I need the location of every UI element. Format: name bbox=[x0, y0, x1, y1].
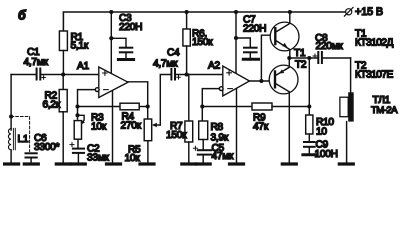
svg-text:150к: 150к bbox=[192, 37, 213, 48]
svg-text:220Н: 220Н bbox=[119, 22, 142, 33]
svg-text:C4: C4 bbox=[167, 48, 180, 59]
node A1 supply on rail bbox=[109, 10, 113, 14]
svg-text:4,7мк: 4,7мк bbox=[24, 57, 49, 68]
wire A2 feedback bbox=[202, 89, 219, 121]
svg-text:A2: A2 bbox=[208, 61, 220, 72]
inductor L1 (microphone) bbox=[8, 75, 15, 163]
capacitor C9 bbox=[304, 142, 315, 153]
node A2 inverting input circle bbox=[219, 87, 223, 91]
node L1 tap (dashed branch) bbox=[9, 114, 13, 118]
ground (C6) bbox=[24, 162, 38, 165]
node C3 tap bbox=[109, 36, 113, 40]
node R9/R10 bbox=[307, 104, 311, 108]
wire mic input bbox=[11, 74, 36, 76]
ground (C7) bbox=[243, 58, 258, 61]
transistor T1 bbox=[270, 12, 299, 58]
node R10 tap bbox=[307, 56, 311, 60]
wire A1 supply from rail bbox=[110, 12, 112, 76]
node base drive bbox=[259, 79, 263, 83]
speaker TL1 (telephone capsule) bbox=[340, 92, 354, 162]
ground (C2) bbox=[71, 162, 85, 165]
ground (C9) bbox=[303, 153, 316, 156]
resistor R2 bbox=[59, 75, 67, 163]
node feedback/R4 bbox=[75, 104, 79, 108]
capacitor C1 bbox=[37, 69, 99, 80]
capacitor C4 bbox=[171, 69, 222, 80]
wire top +15V rail bbox=[63, 12, 345, 31]
node feedback/wiper bbox=[75, 113, 79, 117]
ground (T2 collector) bbox=[282, 162, 296, 165]
svg-text:б: б bbox=[18, 9, 27, 23]
svg-text:5,1к: 5,1к bbox=[71, 41, 89, 52]
node T1 collector on rail bbox=[288, 10, 292, 14]
ground (R5) bbox=[140, 162, 154, 165]
ground (R2) bbox=[56, 162, 70, 165]
capacitor C2 bbox=[70, 143, 84, 163]
wire output to C8 bbox=[289, 57, 317, 59]
wire A2 ground stub bbox=[236, 86, 238, 163]
ground (R7) bbox=[182, 162, 196, 165]
ground (L1) bbox=[5, 162, 19, 165]
svg-text:A1: A1 bbox=[77, 61, 89, 72]
wire A1 output bbox=[128, 82, 148, 119]
svg-text:3,9к: 3,9к bbox=[211, 132, 229, 143]
ground (C3) bbox=[118, 58, 133, 61]
svg-text:10к: 10к bbox=[91, 122, 107, 133]
capacitor C8 bbox=[313, 52, 351, 63]
ground (C5) bbox=[196, 162, 210, 165]
resistor R6 bbox=[183, 12, 190, 75]
svg-text:47к: 47к bbox=[253, 122, 269, 133]
resistor R1 bbox=[59, 31, 67, 75]
resistor R9 bbox=[202, 103, 309, 110]
svg-text:100Н: 100Н bbox=[315, 149, 338, 160]
svg-text:3300*: 3300* bbox=[34, 142, 59, 153]
resistor R3 (trimmer) bbox=[74, 115, 85, 148]
wire A2 output to bases bbox=[250, 80, 275, 82]
terminal +15V bbox=[344, 8, 353, 17]
node R4/output bbox=[146, 104, 150, 108]
svg-text:150к: 150к bbox=[166, 130, 187, 141]
resistor R7 bbox=[185, 75, 193, 163]
resistor R4 bbox=[78, 103, 148, 110]
capacitor C6 bbox=[26, 153, 37, 162]
resistor R10 bbox=[306, 58, 313, 141]
wire R5 wiper to C4 bbox=[160, 75, 170, 126]
capacitor C7 bbox=[236, 38, 257, 58]
node C4/R6/R7 bbox=[185, 72, 189, 76]
svg-text:270к: 270к bbox=[121, 121, 142, 132]
node C7 tap bbox=[234, 36, 238, 40]
svg-text:4,7мк: 4,7мк bbox=[153, 59, 178, 70]
svg-text:33мк: 33мк bbox=[87, 153, 109, 164]
node emitters output bbox=[287, 56, 291, 60]
node R6 top on rail bbox=[185, 10, 189, 14]
op-amp A1 bbox=[99, 67, 128, 98]
svg-text:10: 10 bbox=[316, 127, 327, 138]
wire riser to T1 base bbox=[261, 35, 274, 81]
wire C8 to speaker bbox=[350, 58, 352, 92]
node A2 supply on rail bbox=[234, 10, 238, 14]
svg-text:ТМ-2А: ТМ-2А bbox=[371, 105, 398, 116]
svg-text:47мк: 47мк bbox=[212, 151, 234, 162]
ground (A1) bbox=[107, 162, 121, 165]
wire A1 feedback bbox=[78, 90, 96, 120]
capacitor C5 bbox=[193, 146, 211, 162]
svg-text:10к: 10к bbox=[125, 153, 141, 164]
transistor T2 bbox=[269, 58, 298, 163]
node R8/R9 bbox=[200, 104, 204, 108]
resistor R5 (trimmer) bbox=[144, 119, 160, 163]
svg-text:Т2: Т2 bbox=[295, 60, 307, 71]
svg-text:+15 В: +15 В bbox=[355, 6, 383, 18]
svg-text:КТ3107Е: КТ3107Е bbox=[355, 70, 394, 81]
node input (C1/R1/R2 junction) bbox=[61, 72, 65, 76]
ground (A2) bbox=[230, 162, 244, 165]
node A1 inverting input circle bbox=[95, 88, 99, 92]
svg-text:6,2к: 6,2к bbox=[43, 100, 61, 111]
resistor R8 bbox=[199, 121, 208, 149]
wire A1 ground stub bbox=[112, 86, 114, 163]
op-amp A2 bbox=[223, 66, 250, 96]
wire dashed to C6 bbox=[11, 117, 30, 152]
svg-text:КТ3102Д: КТ3102Д bbox=[355, 37, 394, 48]
wire A2 supply from rail bbox=[235, 12, 237, 76]
ground (speaker) bbox=[339, 162, 353, 165]
capacitor C3 bbox=[111, 38, 132, 58]
svg-text:220мк: 220мк bbox=[316, 41, 344, 52]
svg-text:L1: L1 bbox=[18, 134, 29, 145]
svg-text:220Н: 220Н bbox=[243, 24, 266, 35]
